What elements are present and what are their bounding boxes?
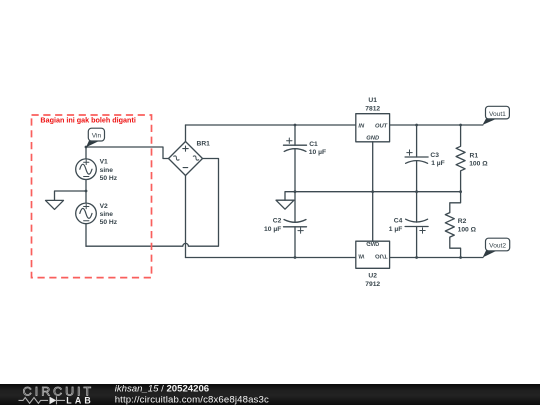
svg-text:Vin: Vin xyxy=(92,133,102,140)
node regulators GND junction xyxy=(371,190,374,193)
svg-text:C3: C3 xyxy=(430,152,439,159)
node R1 top bus xyxy=(459,124,462,127)
svg-text:R2: R2 xyxy=(458,218,467,225)
capacitor C2 xyxy=(284,192,307,258)
node Vin junction xyxy=(85,146,88,149)
svg-text:C4: C4 xyxy=(394,218,403,225)
wire BR1 minus terminal down to bottom bus xyxy=(185,176,187,258)
svg-text:U1: U1 xyxy=(368,97,377,104)
net flag Vin xyxy=(86,128,105,147)
node C1 top bus xyxy=(294,124,297,127)
svg-text:ikhsan_15 / 20524206: ikhsan_15 / 20524206 xyxy=(115,383,209,394)
capacitor C1 xyxy=(284,125,307,192)
wire V1 minus to V2 plus (center tap) xyxy=(85,179,87,204)
voltage regulator U1 (7812) xyxy=(356,114,390,192)
svg-text:100 Ω: 100 Ω xyxy=(458,226,477,233)
wire middle ground bus xyxy=(295,191,461,193)
svg-text:7912: 7912 xyxy=(365,281,380,288)
annotation red dashed box xyxy=(32,115,152,278)
net flag Vout2 xyxy=(483,238,510,257)
pin labels U2 (flipped) xyxy=(358,240,387,258)
wire top bus: BR1 to U1 IN xyxy=(186,124,356,126)
resistor R2 xyxy=(445,192,460,258)
wire V2 minus down xyxy=(85,223,87,246)
resistor R1 xyxy=(456,125,465,192)
svg-text:OUT: OUT xyxy=(375,123,388,129)
svg-text:V1: V1 xyxy=(100,159,108,166)
svg-text:10 µF: 10 µF xyxy=(264,226,281,233)
node C3 top bus xyxy=(415,124,418,127)
svg-text:1 µF: 1 µF xyxy=(431,160,445,167)
svg-text:IN: IN xyxy=(358,253,365,259)
svg-text:7812: 7812 xyxy=(365,106,380,113)
wire BR1 plus terminal up to top bus xyxy=(185,125,187,142)
node R1/R2 middle junction xyxy=(459,190,462,193)
node C1/C2 middle junction xyxy=(294,190,297,193)
svg-text:Vout1: Vout1 xyxy=(489,111,506,118)
bridge rectifier BR1 xyxy=(169,142,203,176)
node center tap junction xyxy=(85,190,88,193)
voltage source V1 xyxy=(76,159,97,180)
svg-text:V2: V2 xyxy=(100,203,108,210)
net flag Vout1 xyxy=(482,106,509,125)
ground (center tap) xyxy=(46,200,64,209)
svg-text:1 µF: 1 µF xyxy=(389,226,403,233)
node C4 bottom bus xyxy=(415,256,418,259)
node R2 bottom bus xyxy=(459,256,462,259)
svg-text:sine: sine xyxy=(100,167,114,174)
ground (middle bus) xyxy=(276,200,294,209)
voltage source V2 xyxy=(76,203,97,224)
pin labels U1 xyxy=(358,123,387,141)
capacitor C4 xyxy=(405,192,428,258)
wire Vin node to BR1 left terminal xyxy=(86,147,169,159)
svg-text:C1: C1 xyxy=(309,141,318,148)
svg-text:50 Hz: 50 Hz xyxy=(100,175,118,182)
svg-text:Bagian ini gak boleh diganti: Bagian ini gak boleh diganti xyxy=(40,115,135,124)
junction dots xyxy=(85,124,462,259)
wire bottom bus: U2 OUT to Vout2 xyxy=(390,257,483,259)
svg-text:GND: GND xyxy=(366,240,380,246)
CircuitLab logo xyxy=(19,385,95,405)
voltage regulator U2 (7912) xyxy=(356,192,390,269)
node C3/C4 middle junction xyxy=(415,190,418,193)
svg-text:Vout2: Vout2 xyxy=(489,243,506,250)
svg-text:http://circuitlab.com/c8x6e8j4: http://circuitlab.com/c8x6e8j48as3c xyxy=(115,394,269,405)
wire V2 return to BR1 right terminal (hop over bridge minus wire) xyxy=(86,159,219,247)
wire bottom bus: BR1 minus to U2 IN xyxy=(186,257,356,259)
svg-text:100 Ω: 100 Ω xyxy=(469,161,488,168)
svg-text:C2: C2 xyxy=(273,218,282,225)
capacitor C3 xyxy=(405,125,428,192)
wire center tap to ground stem xyxy=(55,191,87,200)
svg-text:GND: GND xyxy=(366,135,380,141)
svg-text:IN: IN xyxy=(358,123,365,129)
svg-text:R1: R1 xyxy=(470,153,479,160)
wire top bus: U1 OUT to Vout1 xyxy=(390,124,483,126)
svg-text:U2: U2 xyxy=(368,273,377,280)
svg-text:LAB: LAB xyxy=(66,395,94,405)
wire ground stem at C1/C2 junction xyxy=(285,192,295,201)
wire Vin node down to V1 plus terminal xyxy=(85,147,87,160)
svg-text:OUT: OUT xyxy=(375,253,388,259)
svg-text:BR1: BR1 xyxy=(197,141,211,148)
svg-text:10 µF: 10 µF xyxy=(309,149,326,156)
node C2 bottom bus xyxy=(294,256,297,259)
svg-text:sine: sine xyxy=(100,211,114,218)
svg-text:50 Hz: 50 Hz xyxy=(100,219,118,226)
